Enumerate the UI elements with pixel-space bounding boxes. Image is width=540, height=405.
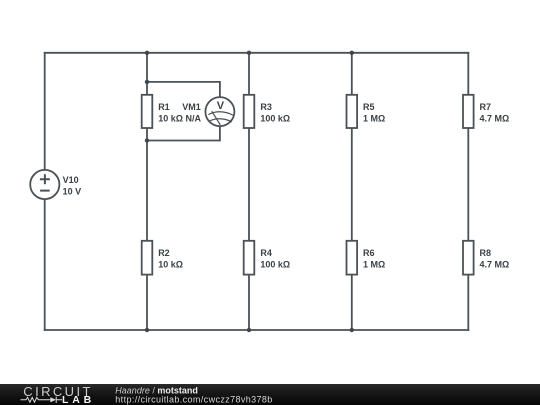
svg-text:http://circuitlab.com/cwczz78v: http://circuitlab.com/cwczz78vh378b xyxy=(115,395,272,405)
svg-text:R1: R1 xyxy=(158,102,170,112)
svg-text:4.7 MΩ: 4.7 MΩ xyxy=(480,260,510,270)
svg-text:VM1: VM1 xyxy=(182,102,201,112)
svg-text:N/A: N/A xyxy=(186,113,202,123)
svg-text:10 kΩ: 10 kΩ xyxy=(158,260,183,270)
svg-text:1 MΩ: 1 MΩ xyxy=(363,113,385,123)
svg-text:R6: R6 xyxy=(363,248,375,258)
svg-text:10 kΩ: 10 kΩ xyxy=(158,113,183,123)
svg-text:R8: R8 xyxy=(480,248,492,258)
svg-text:100 kΩ: 100 kΩ xyxy=(260,113,290,123)
svg-text:R5: R5 xyxy=(363,102,375,112)
svg-text:V: V xyxy=(217,100,225,112)
svg-text:V10: V10 xyxy=(63,175,79,185)
svg-text:10 V: 10 V xyxy=(63,186,82,196)
svg-text:LAB: LAB xyxy=(62,394,95,405)
svg-text:1 MΩ: 1 MΩ xyxy=(363,260,385,270)
svg-text:R3: R3 xyxy=(260,102,272,112)
svg-text:4.7 MΩ: 4.7 MΩ xyxy=(480,113,510,123)
svg-text:R2: R2 xyxy=(158,248,170,258)
svg-text:100 kΩ: 100 kΩ xyxy=(260,260,290,270)
svg-text:R4: R4 xyxy=(260,248,272,258)
svg-text:R7: R7 xyxy=(480,102,492,112)
